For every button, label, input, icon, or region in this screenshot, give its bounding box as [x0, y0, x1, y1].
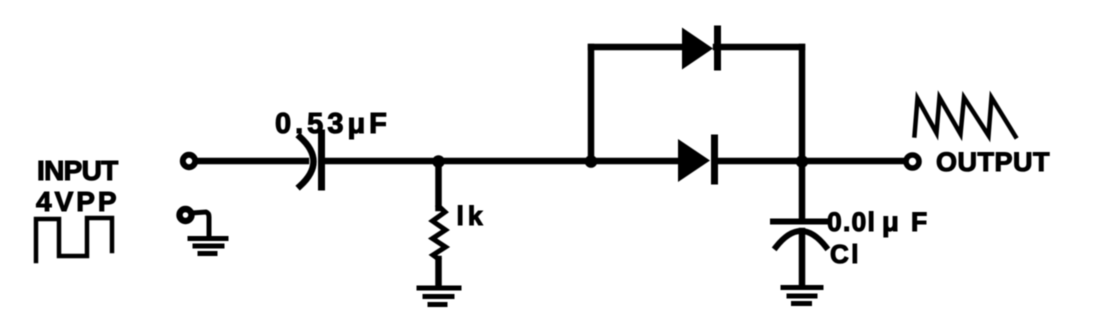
wire output node down to C1 [799, 161, 806, 221]
capacitor C1 curved plate [776, 231, 826, 247]
junction dot left (diode branch) [585, 155, 598, 168]
input terminal J1 [183, 155, 195, 167]
junction dot right (output node) [796, 155, 809, 168]
node junction dot (resistor tap) [432, 155, 445, 168]
svg-text:OUTPUT: OUTPUT [936, 147, 1050, 177]
wire terminal to ground [192, 212, 209, 236]
svg-text:INPUT: INPUT [37, 155, 118, 186]
capacitor 0.53uF curved plate [300, 137, 314, 186]
capacitor 0.53uF straight plate [318, 133, 325, 187]
wire input terminal to capacitor [197, 158, 306, 164]
wire top branch horizontal (right) [716, 44, 802, 50]
wire left riser of top branch [588, 47, 595, 161]
svg-text:0.53μF: 0.53μF [275, 108, 391, 140]
capacitor C1 straight plate [773, 219, 828, 225]
wire output node to output terminal [802, 158, 903, 164]
input square-wave symbol [36, 218, 112, 261]
label INPUT 4VPP [36, 155, 120, 217]
wire top branch horizontal (left) [591, 44, 683, 50]
wire capacitor to diode network [325, 158, 679, 164]
wire diode to output node [718, 158, 802, 164]
wire node down to resistor [435, 161, 442, 208]
output terminal J3 [906, 155, 919, 168]
svg-text:F: F [911, 207, 927, 237]
svg-text:0.0l: 0.0l [827, 207, 876, 237]
svg-text:Cl: Cl [830, 239, 861, 269]
wire C1 to ground [799, 231, 806, 285]
wire resistor to ground [435, 259, 442, 285]
ground (resistor) [419, 288, 459, 305]
output sawtooth symbol [915, 98, 1016, 137]
diode CR1 (top) [682, 28, 718, 70]
resistor R1 1k [433, 206, 446, 259]
wire right riser of top branch [799, 47, 806, 161]
svg-text:4VPP: 4VPP [36, 186, 120, 217]
svg-text:lk: lk [457, 201, 487, 231]
ground (input) [190, 239, 226, 254]
ground (C1) [783, 288, 821, 304]
svg-text:μ: μ [882, 206, 899, 237]
ground terminal J2 [180, 209, 192, 221]
diode CR2 (bottom) [678, 138, 715, 182]
